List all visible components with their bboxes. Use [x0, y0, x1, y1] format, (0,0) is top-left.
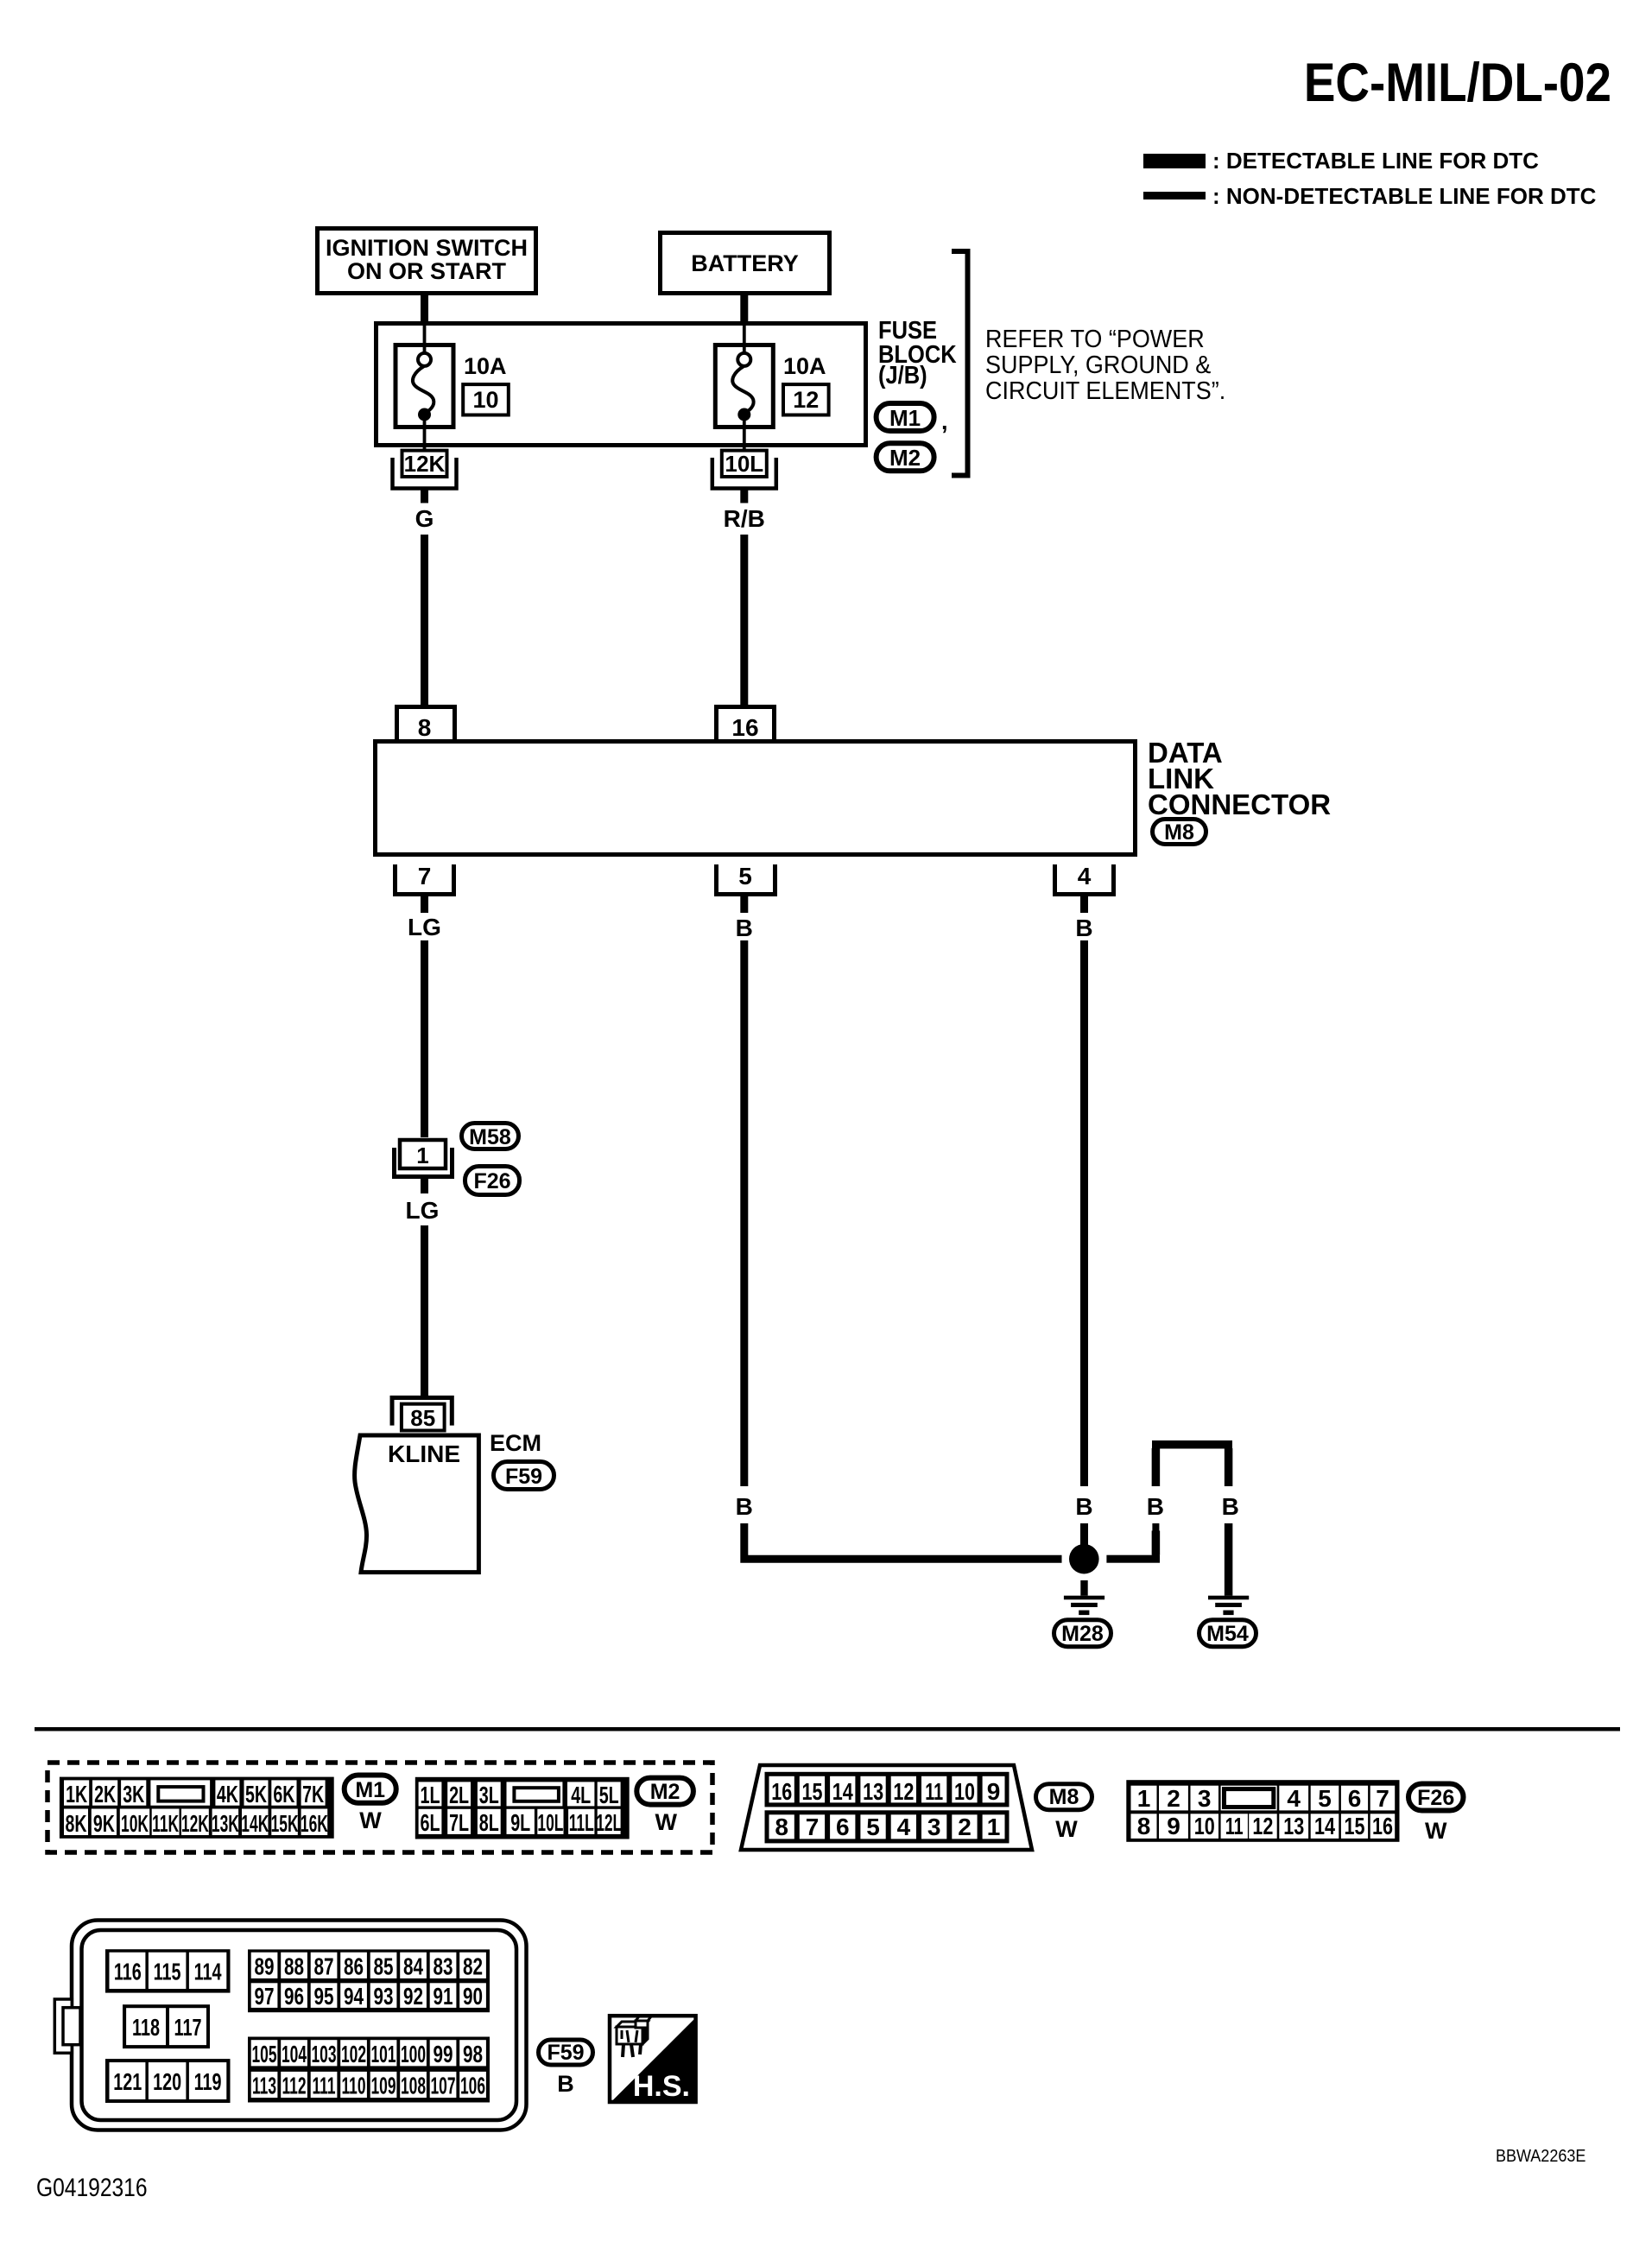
svg-text:7: 7 — [1376, 1785, 1389, 1812]
ECM box — [355, 1435, 479, 1573]
connector M58 oval — [462, 1124, 519, 1150]
svg-text:5K: 5K — [245, 1782, 267, 1808]
svg-text:10L: 10L — [537, 1809, 563, 1836]
svg-text:11L: 11L — [569, 1809, 594, 1836]
svg-text:5: 5 — [866, 1814, 880, 1840]
svg-text:12K: 12K — [181, 1810, 209, 1837]
svg-text:M1: M1 — [889, 405, 921, 431]
svg-text:SUPPLY, GROUND &: SUPPLY, GROUND & — [985, 351, 1212, 378]
svg-text:10L: 10L — [725, 451, 763, 477]
svg-text:10: 10 — [954, 1778, 975, 1805]
svg-text:16: 16 — [771, 1778, 792, 1805]
svg-text:11: 11 — [1225, 1814, 1244, 1840]
svg-text:M54: M54 — [1206, 1622, 1249, 1646]
legend non-detectable line bar — [1143, 192, 1206, 199]
wire junction to ground M28 — [1080, 1580, 1087, 1596]
svg-text:13: 13 — [1283, 1813, 1304, 1839]
svg-text:12: 12 — [1252, 1813, 1273, 1839]
svg-text:115: 115 — [154, 1959, 181, 1985]
svg-text:1: 1 — [987, 1814, 1001, 1840]
svg-text:12L: 12L — [596, 1809, 622, 1836]
pin group 121 120 119 — [105, 2059, 231, 2103]
svg-text:10A: 10A — [783, 353, 826, 379]
svg-text:8: 8 — [418, 714, 432, 741]
fuse 10A no.12 — [715, 326, 773, 449]
svg-text:1K: 1K — [66, 1782, 87, 1808]
svg-text:85: 85 — [410, 1405, 435, 1431]
DLC pin 4 terminal — [1055, 863, 1114, 913]
svg-text:88: 88 — [284, 1954, 304, 1981]
svg-text:105: 105 — [251, 2041, 276, 2067]
svg-text:7K: 7K — [302, 1782, 324, 1808]
svg-text:10A: 10A — [464, 353, 507, 379]
connector F59 oval bottom — [539, 2040, 593, 2065]
svg-text:9: 9 — [1167, 1813, 1180, 1839]
svg-text:F26: F26 — [473, 1169, 510, 1193]
connector view F59 ECM shell outer — [72, 1921, 527, 2130]
svg-text:B: B — [736, 1493, 753, 1520]
svg-text:,: , — [941, 408, 948, 434]
svg-text:118: 118 — [132, 2015, 160, 2042]
wire ignition switch to fuse block (detectable) — [421, 295, 428, 324]
wire LG pin7 to M58 connector (detectable) — [421, 940, 428, 1137]
DLC pin 7 terminal — [396, 863, 454, 913]
svg-text:10: 10 — [1194, 1813, 1215, 1839]
wire B to ground bus corner — [744, 1523, 1062, 1559]
connector M2 oval — [877, 443, 934, 471]
svg-text:106: 106 — [460, 2072, 485, 2099]
connector F59 oval — [494, 1462, 554, 1490]
svg-text:116: 116 — [114, 1959, 142, 1985]
svg-text:B: B — [557, 2071, 574, 2097]
svg-text:BATTERY: BATTERY — [691, 250, 799, 276]
junction dot — [1069, 1544, 1099, 1574]
fuse2 number box 12 — [783, 384, 829, 415]
connector M8 oval — [1153, 820, 1206, 845]
svg-text:LG: LG — [408, 914, 441, 940]
svg-text:16: 16 — [1372, 1813, 1393, 1839]
svg-text:117: 117 — [174, 2015, 202, 2042]
wire B from pin 5 down (detectable) — [740, 940, 748, 1486]
svg-text:M1: M1 — [355, 1778, 385, 1802]
svg-text:3: 3 — [1198, 1785, 1212, 1812]
ground connector M28 oval — [1054, 1620, 1111, 1647]
svg-text:ON OR START: ON OR START — [347, 258, 506, 284]
svg-text:90: 90 — [463, 1984, 483, 2010]
svg-text:12K: 12K — [404, 451, 446, 477]
wire branch left leg lower segment — [1152, 1523, 1159, 1559]
svg-text:7: 7 — [418, 863, 432, 889]
svg-text:89: 89 — [254, 1954, 274, 1981]
wire R/B to DLC pin 16 (detectable) — [740, 535, 748, 706]
svg-text:120: 120 — [153, 2069, 181, 2096]
svg-text:EC-MIL/DL-02: EC-MIL/DL-02 — [1304, 52, 1611, 112]
ground symbol M28 — [1064, 1596, 1104, 1615]
svg-text:93: 93 — [373, 1984, 393, 2010]
svg-text:97: 97 — [254, 1984, 274, 2010]
svg-text:96: 96 — [284, 1984, 304, 2010]
svg-text:ECM: ECM — [490, 1430, 541, 1456]
svg-text:9L: 9L — [510, 1810, 530, 1837]
wire junction to branch leg — [1106, 1555, 1160, 1563]
wire B from pin 4 down (detectable) — [1080, 940, 1088, 1486]
svg-text:99: 99 — [433, 2042, 453, 2068]
svg-text:3: 3 — [927, 1814, 941, 1840]
wire stub below M58/F26 — [421, 1177, 428, 1194]
connector view M8 trapezoid — [741, 1765, 1032, 1850]
svg-text:114: 114 — [194, 1959, 222, 1985]
svg-text:4: 4 — [897, 1814, 911, 1840]
svg-text:4K: 4K — [217, 1782, 238, 1808]
svg-text:B: B — [1222, 1493, 1239, 1520]
wire stub below 10L — [740, 489, 748, 503]
svg-text:F59: F59 — [505, 1465, 542, 1489]
svg-text:G04192316: G04192316 — [36, 2173, 148, 2202]
svg-text:119: 119 — [194, 2069, 222, 2096]
svg-text:: NON-DETECTABLE LINE FOR DTC: : NON-DETECTABLE LINE FOR DTC — [1212, 183, 1597, 209]
svg-text:F59: F59 — [547, 2041, 584, 2065]
svg-text:10K: 10K — [121, 1810, 149, 1837]
svg-text:H.S.: H.S. — [633, 2070, 690, 2103]
svg-text:6: 6 — [836, 1814, 850, 1840]
svg-text:5L: 5L — [599, 1782, 619, 1809]
battery box — [661, 233, 830, 294]
svg-text:91: 91 — [433, 1984, 453, 2010]
svg-text:103: 103 — [311, 2041, 336, 2067]
svg-text:85: 85 — [373, 1954, 393, 1981]
bracket right of fuse block — [952, 251, 968, 476]
svg-text:14: 14 — [1314, 1813, 1335, 1839]
svg-text:B: B — [1147, 1493, 1164, 1520]
svg-text:8L: 8L — [479, 1810, 499, 1837]
connector M1 oval bottom — [345, 1776, 396, 1803]
connector key tab outer — [54, 1999, 72, 2053]
svg-text:7: 7 — [806, 1814, 820, 1840]
svg-text:CIRCUIT ELEMENTS”.: CIRCUIT ELEMENTS”. — [985, 377, 1225, 404]
H.S. inspection icon — [610, 2016, 696, 2103]
dashed group box for M1 M2 — [47, 1763, 712, 1852]
svg-text:REFER TO “POWER: REFER TO “POWER — [985, 325, 1205, 352]
svg-text:95: 95 — [313, 1984, 333, 2010]
svg-text:9: 9 — [987, 1778, 1001, 1805]
DLC pin 8 terminal — [397, 707, 455, 742]
svg-text:1L: 1L — [421, 1782, 440, 1809]
wire G to DLC pin 8 (detectable) — [421, 535, 428, 706]
svg-text:121: 121 — [113, 2069, 142, 2096]
ground connector M54 oval — [1199, 1620, 1256, 1647]
svg-text:107: 107 — [430, 2072, 455, 2099]
separator line — [35, 1727, 1620, 1731]
svg-text:92: 92 — [403, 1984, 423, 2010]
connector M8 oval bottom — [1036, 1784, 1092, 1810]
wire LG to ECM pin 85 (detectable) — [421, 1225, 428, 1396]
svg-text:W: W — [359, 1807, 382, 1833]
svg-text:13K: 13K — [212, 1810, 239, 1837]
branch over-bridge wire — [1152, 1445, 1232, 1596]
svg-text:IGNITION SWITCH: IGNITION SWITCH — [326, 235, 528, 261]
svg-text:102: 102 — [341, 2041, 366, 2067]
svg-text:M8: M8 — [1164, 820, 1194, 845]
svg-text:2: 2 — [958, 1814, 972, 1840]
connector M2 oval bottom — [636, 1778, 693, 1805]
svg-text:83: 83 — [433, 1954, 453, 1981]
svg-text:10: 10 — [472, 387, 498, 413]
svg-text:LG: LG — [406, 1197, 440, 1224]
svg-text:14K: 14K — [241, 1810, 269, 1837]
svg-text:KLINE: KLINE — [388, 1440, 460, 1467]
data link connector label — [1148, 737, 1331, 820]
svg-text:87: 87 — [313, 1954, 333, 1981]
svg-text:16K: 16K — [301, 1810, 328, 1837]
svg-text:13: 13 — [863, 1778, 883, 1805]
connector view F59 ECM shell inner — [82, 1930, 517, 2120]
fuse 10A no.10 — [396, 326, 453, 449]
svg-text:14: 14 — [832, 1778, 853, 1805]
terminal 10L — [712, 451, 776, 489]
svg-text:101: 101 — [370, 2041, 396, 2067]
svg-text:7L: 7L — [449, 1810, 469, 1837]
svg-text:84: 84 — [403, 1954, 423, 1981]
connector view F26 pin grid — [1126, 1780, 1399, 1842]
connector F26 oval — [465, 1167, 520, 1195]
svg-text:BBWA2263E: BBWA2263E — [1496, 2147, 1586, 2166]
svg-text:2L: 2L — [449, 1782, 469, 1809]
connector view M2 pin grid — [415, 1777, 630, 1839]
connector view M1 pin grid — [60, 1777, 334, 1839]
svg-text:W: W — [1055, 1816, 1078, 1842]
svg-text:82: 82 — [463, 1954, 483, 1981]
fuse block (J/B) box — [377, 324, 866, 446]
svg-text:R/B: R/B — [724, 505, 765, 532]
terminal 12K — [393, 451, 457, 489]
svg-text:113: 113 — [252, 2072, 276, 2099]
wire stub below 12K — [421, 489, 428, 503]
svg-text:12: 12 — [893, 1778, 914, 1805]
ECM pin 85 terminal — [392, 1396, 452, 1431]
DLC pin 16 terminal — [717, 707, 775, 742]
svg-text:2: 2 — [1167, 1785, 1180, 1812]
fuse1 number box 10 — [463, 384, 509, 415]
svg-text:8: 8 — [1137, 1813, 1151, 1839]
ground symbol M54 — [1208, 1596, 1249, 1615]
svg-text:(J/B): (J/B) — [878, 360, 927, 389]
svg-text:B: B — [736, 915, 753, 941]
svg-text:5: 5 — [738, 863, 752, 889]
svg-text:2K: 2K — [94, 1782, 116, 1808]
svg-text:6L: 6L — [421, 1810, 440, 1837]
svg-text:6: 6 — [1348, 1785, 1362, 1812]
svg-text:6K: 6K — [273, 1782, 294, 1808]
data link connector box — [376, 742, 1136, 855]
svg-text:: DETECTABLE LINE FOR DTC: : DETECTABLE LINE FOR DTC — [1212, 148, 1539, 174]
svg-text:M2: M2 — [650, 1780, 680, 1804]
svg-text:W: W — [655, 1809, 677, 1835]
svg-text:CONNECTOR: CONNECTOR — [1148, 788, 1331, 820]
svg-text:108: 108 — [401, 2072, 426, 2099]
pin group 118 117 — [123, 2004, 210, 2048]
svg-text:4L: 4L — [571, 1782, 591, 1809]
svg-text:4: 4 — [1287, 1785, 1301, 1812]
svg-text:3L: 3L — [479, 1782, 499, 1809]
svg-text:8K: 8K — [65, 1811, 86, 1838]
svg-text:11K: 11K — [152, 1810, 179, 1837]
svg-text:3K: 3K — [123, 1782, 144, 1808]
pin group 116 115 114 — [105, 1949, 231, 1992]
svg-text:12: 12 — [793, 387, 819, 413]
svg-text:109: 109 — [370, 2072, 396, 2099]
svg-text:16: 16 — [731, 714, 758, 741]
svg-text:1: 1 — [1137, 1785, 1151, 1812]
svg-text:111: 111 — [312, 2072, 335, 2099]
svg-text:B: B — [1075, 915, 1092, 941]
svg-text:15: 15 — [1344, 1813, 1364, 1839]
svg-text:104: 104 — [282, 2041, 307, 2067]
note refer to power supply — [985, 325, 1225, 404]
connector M1 oval — [877, 403, 948, 434]
pin block 105-98 / 113-106 — [248, 2037, 490, 2103]
svg-text:B: B — [1075, 1493, 1092, 1520]
svg-text:G: G — [415, 505, 434, 532]
svg-text:F26: F26 — [1417, 1786, 1454, 1810]
wire battery to fuse block (detectable) — [740, 295, 748, 324]
svg-text:15K: 15K — [271, 1810, 299, 1837]
ignition switch box — [318, 229, 536, 294]
connector F26 oval bottom — [1408, 1784, 1464, 1811]
legend detectable line bar — [1143, 154, 1206, 168]
svg-text:W: W — [1425, 1818, 1447, 1844]
svg-text:94: 94 — [344, 1984, 364, 2010]
svg-text:112: 112 — [282, 2072, 306, 2099]
wire B into junction — [1080, 1523, 1088, 1546]
svg-text:9K: 9K — [93, 1811, 115, 1838]
svg-text:4: 4 — [1078, 863, 1092, 889]
svg-text:M2: M2 — [889, 445, 921, 471]
svg-text:5: 5 — [1318, 1785, 1332, 1812]
pin block 89-82 / 97-90 — [248, 1949, 490, 2012]
svg-text:M8: M8 — [1049, 1785, 1079, 1809]
svg-text:1: 1 — [416, 1143, 428, 1168]
svg-text:100: 100 — [401, 2041, 426, 2067]
svg-text:98: 98 — [463, 2042, 483, 2068]
svg-text:M58: M58 — [469, 1125, 511, 1149]
inline connector M58/F26 terminal 1 — [395, 1140, 453, 1177]
svg-text:11: 11 — [925, 1779, 943, 1806]
svg-text:86: 86 — [344, 1954, 364, 1981]
svg-text:110: 110 — [341, 2072, 365, 2099]
connector key tab inner — [63, 2008, 80, 2045]
svg-text:M28: M28 — [1061, 1622, 1104, 1646]
fuse block label — [878, 315, 957, 389]
svg-text:15: 15 — [801, 1778, 822, 1805]
DLC pin 5 terminal — [717, 863, 775, 913]
svg-text:8: 8 — [775, 1814, 788, 1840]
